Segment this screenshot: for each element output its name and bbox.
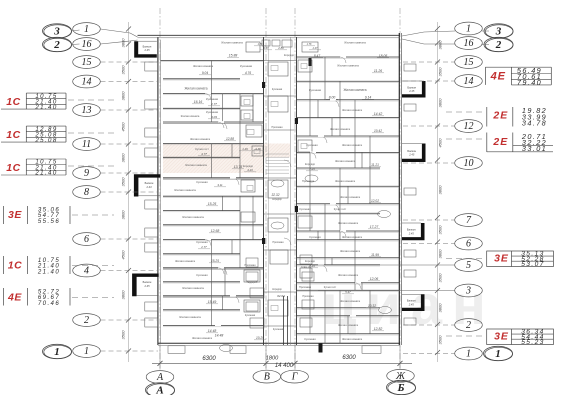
wall face [163,296,264,298]
svg-text:Кухонная: Кухонная [273,328,284,331]
svg-text:9.14: 9.14 [365,96,372,100]
wall face [163,122,264,124]
svg-text:3500: 3500 [121,330,126,340]
svg-text:4500: 4500 [121,122,126,132]
sanitary room [241,180,255,192]
partition wall [309,152,311,231]
wall [297,117,400,119]
core cross wall [264,60,297,62]
wall [297,307,381,309]
svg-text:2: 2 [84,315,89,326]
wall [297,282,400,284]
black stub bottom [319,344,323,353]
wall [163,177,264,179]
partition wall [224,268,226,296]
core cross wall [264,95,297,97]
svg-text:Жилая комната: Жилая комната [185,163,207,167]
partition wall [252,196,254,239]
wall [297,212,381,214]
sanitary room [268,218,288,232]
svg-text:11.26: 11.26 [374,69,382,73]
svg-text:Жилая комната: Жилая комната [221,41,243,45]
svg-text:8.47: 8.47 [314,54,320,58]
svg-text:Жилая комната: Жилая комната [344,41,366,45]
svg-text:Жилая комната: Жилая комната [175,259,196,263]
plan oval mark [378,211,391,218]
svg-text:Жилая комната: Жилая комната [343,88,366,92]
axis circle 6 left [73,233,101,246]
svg-text:2: 2 [53,39,60,51]
window left [145,318,158,327]
window left [145,62,158,71]
svg-text:Прихожая: Прихожая [302,295,314,298]
window right [404,188,416,195]
wall face [297,258,400,260]
svg-text:Жилая комната: Жилая комната [190,137,211,141]
sanitary room [268,96,288,112]
svg-text:2.45: 2.45 [143,48,150,52]
svg-text:62.04: 62.04 [277,294,285,298]
svg-text:34.78: 34.78 [522,118,547,127]
partition wall [331,258,333,265]
svg-text:3800: 3800 [438,98,443,108]
svg-text:3500: 3500 [121,177,126,187]
svg-text:Балкон: Балкон [407,85,416,89]
balcony right 2 [402,144,426,163]
extra door arcs [218,122,224,128]
door gap [230,177,236,179]
svg-text:12.68: 12.68 [211,229,220,233]
wall face [163,254,240,256]
axis circle 7 right [455,214,483,227]
svg-text:Прихожая: Прихожая [302,179,315,183]
svg-text:14: 14 [464,76,474,87]
svg-text:1.29: 1.29 [242,147,248,151]
core inner line [268,40,270,345]
axis circle В [253,370,281,383]
sanitary room [300,268,312,278]
partition wall [361,283,363,290]
axis line A [159,8,161,368]
svg-text:4: 4 [84,266,89,277]
svg-text:2.77: 2.77 [210,102,217,106]
svg-text:2: 2 [466,320,471,331]
svg-text:3: 3 [465,286,471,297]
svg-text:3500: 3500 [121,65,126,75]
svg-text:53.07: 53.07 [521,261,545,268]
svg-text:10: 10 [464,158,474,169]
svg-text:3800: 3800 [438,40,443,50]
wall face [297,316,400,318]
fixture [271,102,278,107]
wall face [163,144,264,146]
wall [163,156,240,158]
window left [145,200,158,209]
small room [302,272,314,281]
small room [302,300,314,309]
partition wall [361,152,363,168]
fixture [244,114,250,119]
door gap [205,239,211,241]
sanitary room [252,146,263,156]
leader fan top-left [101,29,131,33]
fixture [301,64,307,69]
svg-text:1С: 1С [8,259,23,271]
window bottom 2 [230,346,246,354]
axis circle А [146,371,174,384]
svg-text:15: 15 [464,57,474,68]
axis circle 13 left [73,104,101,117]
core cross wall [264,249,297,251]
svg-text:4Е: 4Е [7,291,22,303]
axis line G [294,8,296,368]
table 3Е right #2 [487,329,554,345]
core cross wall [264,325,297,327]
wall face [297,57,400,59]
svg-text:3500: 3500 [438,273,443,283]
table 3Е right #1 [487,251,554,267]
wall face [297,100,400,102]
window right [404,270,416,277]
svg-text:Совм. с/у: Совм. с/у [301,266,312,269]
wall face [297,290,400,292]
svg-text:3Е: 3Е [8,209,22,221]
small room [246,258,258,267]
svg-text:21.40: 21.40 [34,170,57,177]
svg-text:4.23: 4.23 [247,168,253,172]
svg-text:6: 6 [466,239,471,250]
svg-text:21.40: 21.40 [34,104,57,111]
wall [163,281,240,283]
axis circle 6 right [455,237,483,250]
small room [272,40,280,46]
svg-text:1: 1 [84,24,89,35]
svg-text:15: 15 [82,57,92,68]
svg-text:Кухня гост: Кухня гост [195,147,209,151]
door gap [355,282,361,284]
svg-text:1С: 1С [6,129,21,141]
window left [145,243,158,252]
wall [297,185,400,187]
sanitary room [298,60,312,72]
fixture [271,306,278,311]
sanitary room [268,300,288,316]
door gap [340,230,346,232]
svg-text:Прихожая: Прихожая [271,126,283,129]
svg-text:2Е: 2Е [492,136,508,148]
svg-text:Коридор: Коридор [272,198,282,201]
partition wall [354,100,356,168]
svg-text:3: 3 [53,25,60,37]
plan oval mark [271,180,284,187]
wall face [161,61,264,63]
balcony left lower (black) [132,274,159,297]
leader 1 right [403,353,455,355]
wall [297,264,381,266]
sanitary room [244,270,260,282]
axis circle Б [387,380,416,394]
partition wall [354,231,356,290]
svg-text:Г: Г [291,372,298,383]
partition wall [309,265,311,334]
sanitary room [268,180,288,198]
partition wall [222,196,224,210]
wall [163,325,264,327]
sanitary room [241,212,255,222]
wall [297,289,400,291]
svg-text:Кухонная: Кухонная [206,110,219,114]
wall face [297,334,400,336]
wall [163,267,264,269]
svg-text:Кухонная: Кухонная [206,97,219,101]
svg-text:14 400: 14 400 [275,363,294,369]
small room [300,255,312,264]
wall face [297,213,381,215]
svg-text:14.42: 14.42 [374,112,383,116]
svg-text:18.05: 18.05 [379,54,388,58]
svg-text:15.49: 15.49 [208,300,217,304]
svg-text:9.04: 9.04 [202,71,208,75]
wall face [163,310,240,312]
svg-text:15.88: 15.88 [229,54,238,58]
svg-text:16: 16 [82,39,92,50]
svg-text:Жилая комната: Жилая комната [340,249,361,253]
balcony right 1 [402,81,426,98]
partition wall [331,118,333,136]
wall face [297,118,400,120]
small room [282,40,292,47]
sanitary room [302,42,318,52]
door gap [205,93,211,95]
svg-text:3500: 3500 [438,67,443,77]
partition wall [339,290,341,343]
wall face [163,326,264,328]
svg-text:70.46: 70.46 [38,300,60,307]
balcony right 3 [402,223,425,240]
window left [145,302,158,311]
svg-text:3800: 3800 [121,290,126,300]
wall face [297,283,400,285]
leader fan top-right [402,32,424,36]
svg-text:3Е: 3Е [494,253,509,265]
core cross wall [264,213,297,215]
fixture [301,144,307,149]
sanitary room [270,250,288,264]
svg-text:3800: 3800 [121,153,126,163]
svg-text:2.80: 2.80 [277,46,284,50]
partition wall [339,81,341,136]
wall [297,80,400,82]
wall [163,93,264,95]
door gap [330,99,336,101]
wall face [297,81,400,83]
svg-text:2.45: 2.45 [408,302,415,306]
svg-text:2.45: 2.45 [408,152,415,156]
axis circle 10 right [455,157,483,170]
sanitary room [244,300,260,312]
big circle 3 top-right [484,24,513,38]
svg-text:Кухня гост: Кухня гост [324,285,337,289]
svg-text:Коридор: Коридор [284,53,295,57]
svg-text:Б: Б [397,382,405,394]
axis circle Г [281,370,309,383]
svg-text:15.25: 15.25 [208,202,217,206]
plan oval mark [305,175,318,182]
svg-text:7.24: 7.24 [309,167,315,171]
plan oval mark [220,345,233,352]
small room [262,40,270,46]
svg-text:Жилая комната: Жилая комната [192,336,213,340]
svg-text:11.21: 11.21 [371,163,379,167]
outer wall left [157,37,159,345]
svg-text:Кухонная: Кухонная [196,180,208,184]
door arcs [220,122,227,129]
leader lines left [101,61,159,63]
outer wall right [398,33,400,345]
svg-text:Кухонная: Кухонная [272,88,283,91]
window left [145,148,158,157]
axis circle 8 left [73,186,101,199]
svg-text:Балкон: Балкон [143,45,152,49]
svg-text:16: 16 [464,38,474,49]
balcony left mid (black) [134,174,161,196]
svg-text:12.88: 12.88 [226,137,234,141]
door gap [218,121,224,123]
svg-text:55.56: 55.56 [38,218,60,225]
svg-text:1С: 1С [6,96,21,108]
axis circle 9 left [73,167,101,180]
door gap [215,325,221,327]
door gap [340,56,346,58]
svg-text:Прихожая: Прихожая [244,264,256,267]
svg-text:Жилая комната: Жилая комната [330,127,351,131]
wall face [163,158,240,160]
svg-text:4500: 4500 [121,250,126,260]
axis circle А lower [146,383,175,397]
svg-text:1: 1 [54,346,60,358]
svg-text:5: 5 [466,260,471,271]
svg-text:Кухонная: Кухонная [196,273,208,277]
partition wall [231,240,233,254]
svg-text:3800: 3800 [121,38,126,48]
door gap [310,151,316,153]
leader solid 3 [318,290,455,292]
fixture [247,186,253,191]
partition wall [317,231,319,240]
partition wall [231,144,233,158]
svg-text:Жилая комната: Жилая комната [342,143,363,147]
svg-text:3800: 3800 [121,210,126,220]
stair core inner wall [290,37,292,345]
svg-text:15.25: 15.25 [211,259,219,263]
partition wall [222,94,224,122]
svg-text:Кухонная: Кухонная [299,207,311,211]
stair treads [266,153,289,155]
svg-text:2.45: 2.45 [408,231,415,235]
window right [404,104,416,111]
axis circle 1 right [455,22,483,35]
outer wall top [138,34,401,36]
svg-text:Балкон: Балкон [407,228,416,232]
door gap [230,295,236,297]
partition wall [252,94,254,122]
svg-text:14.48: 14.48 [208,329,217,333]
sanitary room [298,140,312,152]
wall [163,121,264,123]
axis circle 1 left [73,345,101,358]
wall face [297,265,381,267]
window bottom 1 [168,346,185,354]
svg-text:10.32: 10.32 [368,304,376,308]
axis circle 2 right [455,319,483,332]
sanitary room [246,125,262,137]
axis circle 3 right [455,284,483,297]
fixture [254,150,260,154]
wall face [163,282,240,284]
wall face [297,136,400,138]
core lower double wall [283,296,285,345]
svg-text:10.29: 10.29 [256,336,264,340]
wall [297,56,400,58]
core cross wall [264,177,297,179]
svg-text:4500: 4500 [438,138,443,148]
small room [250,288,264,298]
wall [163,239,264,241]
svg-text:Жилая комната: Жилая комната [335,159,356,163]
axis circle 5 right [455,259,483,272]
wall face [163,109,240,111]
svg-text:11: 11 [82,139,91,150]
svg-text:А: А [156,372,164,383]
leader lines right [403,61,455,63]
small room [246,302,258,311]
svg-text:2.43: 2.43 [145,185,152,189]
wall [163,295,264,297]
plan oval mark [379,307,392,314]
axis circle 15 left [73,56,101,69]
partition wall [317,100,319,118]
axis circle 14 right [455,75,483,88]
svg-text:3: 3 [495,25,502,37]
svg-text:Кухонная: Кухонная [240,64,253,68]
axis circle 4 left [73,264,101,277]
svg-text:1: 1 [495,348,501,360]
wall [297,151,400,153]
svg-text:13: 13 [82,105,92,116]
svg-text:12.82: 12.82 [374,327,383,331]
axis circle Ж [387,369,415,382]
axis circle 15 right [455,56,483,69]
partition wall [347,316,349,334]
partition wall [339,168,341,240]
svg-text:Кухонная: Кухонная [245,314,256,317]
door gap [318,264,324,266]
svg-text:10.42: 10.42 [374,129,382,133]
wall [163,195,264,197]
svg-text:Жилая комната: Жилая комната [338,323,359,327]
svg-text:Кухонная: Кухонная [306,143,318,147]
small room [246,272,258,281]
window left [145,228,158,237]
partition wall [309,57,311,136]
svg-text:2.47: 2.47 [312,47,318,50]
outer wall bottom [158,342,400,344]
wall face [297,153,400,155]
svg-text:Жилая комната: Жилая комната [338,221,359,225]
wall face [297,308,381,310]
window left [145,100,158,109]
wall [297,230,400,232]
